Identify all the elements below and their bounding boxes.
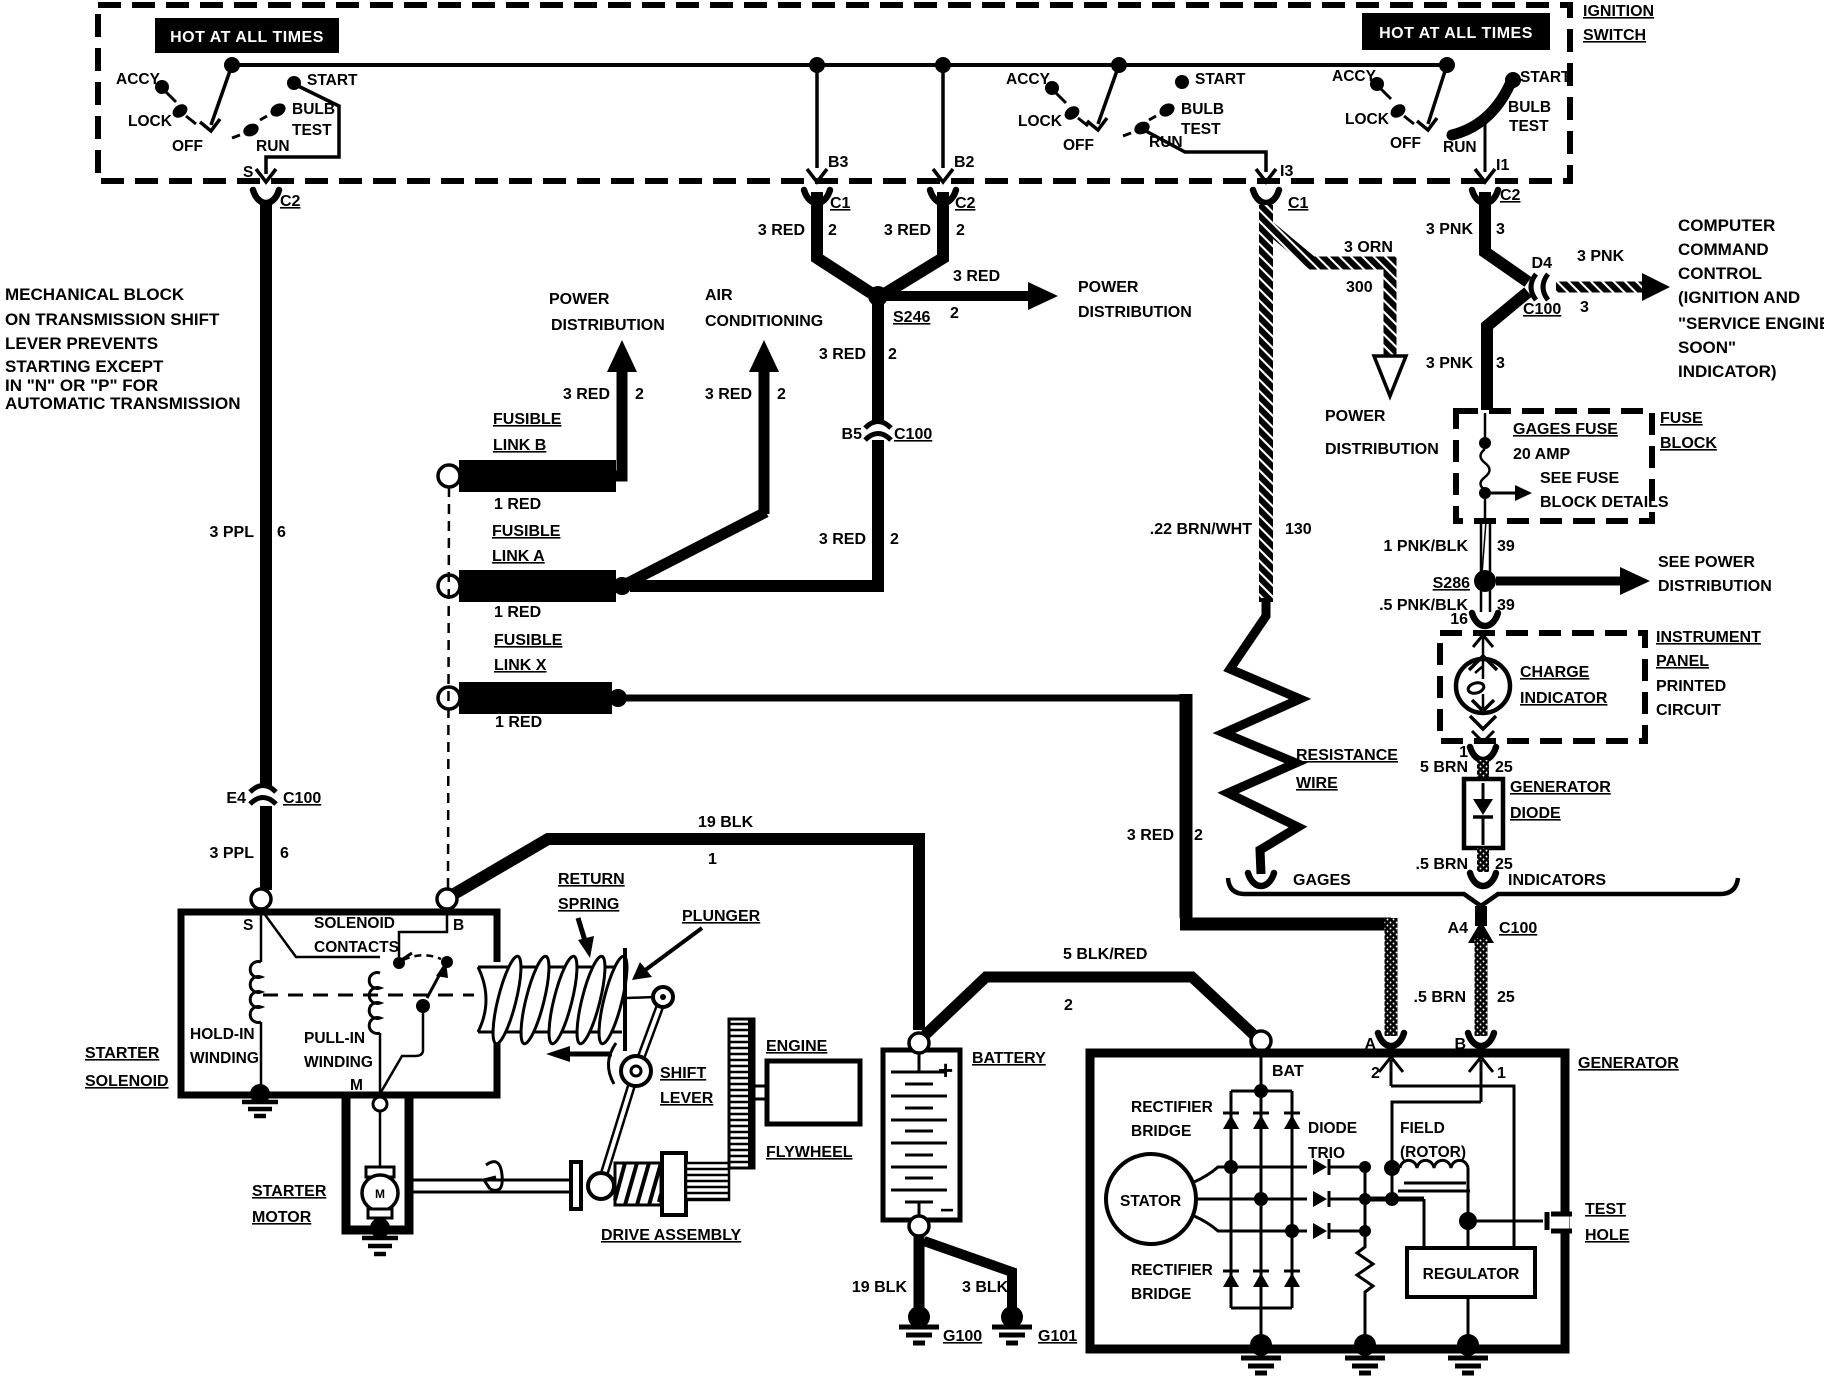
node bus junction 3: [935, 57, 951, 73]
svg-text:SPRING: SPRING: [558, 896, 619, 913]
svg-text:IGNITION: IGNITION: [1583, 3, 1654, 20]
svg-text:5 BRN: 5 BRN: [1420, 759, 1468, 776]
svg-text:OFF: OFF: [1390, 135, 1421, 152]
svg-text:IN "N" OR "P" FOR: IN "N" OR "P" FOR: [5, 376, 158, 395]
diodes bottom row: [1223, 1271, 1300, 1287]
hollow arrow power distribution: [1374, 356, 1406, 396]
svg-text:HOT AT ALL TIMES: HOT AT ALL TIMES: [1379, 25, 1533, 42]
svg-text:BAT: BAT: [1272, 1063, 1304, 1080]
connector E4 C100: [226, 786, 321, 808]
connector A4 C100: [1448, 920, 1538, 943]
arrow A inside box: [1371, 1057, 1403, 1086]
svg-text:WINDING: WINDING: [190, 1050, 259, 1067]
svg-text:−: −: [940, 1197, 954, 1224]
arrow 3 PNK to computer command control: [1556, 248, 1670, 316]
svg-text:G100: G100: [943, 1328, 982, 1345]
fusible link X: [438, 682, 627, 714]
svg-text:ON TRANSMISSION SHIFT: ON TRANSMISSION SHIFT: [5, 310, 220, 329]
label POWER DISTRIBUTION (left): [549, 291, 665, 334]
switch 2 START contact: [1175, 71, 1246, 89]
connector 16: [1450, 611, 1498, 628]
svg-text:POWER: POWER: [1078, 279, 1139, 296]
svg-text:BULB: BULB: [1181, 101, 1224, 118]
connector C2 (switch 1): [253, 190, 301, 210]
svg-text:1: 1: [1497, 1065, 1506, 1082]
svg-text:2: 2: [950, 305, 959, 322]
splice S286: [1433, 570, 1496, 592]
ground starter motor: [362, 1218, 398, 1254]
shift lever eye at plunger: [653, 987, 673, 1007]
wire link X long to generator A: [618, 695, 1183, 702]
svg-text:RETURN: RETURN: [558, 871, 625, 888]
ground hold-in: [242, 1084, 278, 1116]
svg-text:2: 2: [828, 222, 837, 239]
wire 19 BLK from solenoid B to battery: [454, 839, 919, 1030]
switch 2 BULB TEST contact: [1149, 101, 1224, 138]
svg-text:3: 3: [1580, 299, 1589, 316]
svg-text:POWER: POWER: [1325, 408, 1386, 425]
svg-text:GENERATOR: GENERATOR: [1578, 1055, 1679, 1072]
label COMPUTER COMMAND CONTROL: [1678, 216, 1824, 381]
junction dots stator rows: [1224, 1160, 1299, 1238]
terminal BAT generator: [1251, 1031, 1271, 1051]
test hole wire: [1459, 1212, 1547, 1230]
label FUSIBLE LINK A: [492, 523, 561, 565]
svg-text:BULB: BULB: [292, 101, 335, 118]
svg-text:16: 16: [1450, 611, 1468, 628]
wire .5 BRN speckled below diode: [1477, 848, 1489, 872]
wire brace to A4: [1475, 906, 1487, 926]
wire B3 drop: [807, 65, 849, 182]
label RECTIFIER BRIDGE bottom: [1131, 1262, 1213, 1303]
pull-in winding coil: [369, 972, 380, 1033]
drive hatched coupling: [615, 1163, 661, 1205]
svg-text:A4: A4: [1448, 920, 1469, 937]
label 3 RED 2 (C1 drop): [758, 222, 837, 239]
wire 5 BRN speckled: [1477, 760, 1489, 779]
svg-text:3 BLK: 3 BLK: [962, 1279, 1009, 1296]
svg-text:INDICATOR): INDICATOR): [1678, 362, 1777, 381]
svg-text:SWITCH: SWITCH: [1583, 27, 1646, 44]
svg-text:ACCY: ACCY: [1332, 68, 1377, 85]
wire B5 down and left to link A: [630, 440, 878, 586]
label 5 BLK/RED 2: [1063, 946, 1147, 1014]
wire link B to power arrow: [610, 468, 622, 476]
svg-text:GENERATOR: GENERATOR: [1510, 779, 1611, 796]
label 3 RED 2 (S246 down): [819, 346, 897, 363]
wire S to hold-in winding: [260, 909, 263, 962]
svg-text:SHIFT: SHIFT: [660, 1065, 706, 1082]
label CHARGE INDICATOR: [1520, 664, 1608, 707]
svg-text:(IGNITION AND: (IGNITION AND: [1678, 288, 1800, 307]
label DIODE TRIO: [1308, 1120, 1357, 1162]
battery plus minus: [938, 1055, 954, 1224]
battery cells: [891, 1053, 947, 1216]
svg-text:S246: S246: [893, 309, 930, 326]
svg-text:RUN: RUN: [256, 138, 290, 155]
svg-text:START: START: [1520, 69, 1571, 86]
svg-text:G101: G101: [1038, 1328, 1077, 1345]
svg-text:.5 BRN: .5 BRN: [1414, 989, 1466, 1006]
svg-text:RECTIFIER: RECTIFIER: [1131, 1099, 1213, 1116]
svg-text:ACCY: ACCY: [116, 71, 161, 88]
connector B: [1454, 1033, 1494, 1053]
svg-text:CIRCUIT: CIRCUIT: [1656, 702, 1721, 719]
svg-text:PANEL: PANEL: [1656, 653, 1709, 670]
arrow power distribution right of S246: [886, 282, 1058, 310]
drive collar disc: [571, 1162, 581, 1209]
label STARTER MOTOR: [252, 1183, 327, 1226]
hold-in winding coil: [250, 962, 261, 1023]
ignition switch dashed box: [98, 5, 1570, 181]
svg-text:1: 1: [708, 851, 717, 868]
shift lever rod: [601, 998, 663, 1184]
svg-text:AUTOMATIC TRANSMISSION: AUTOMATIC TRANSMISSION: [5, 394, 240, 413]
svg-text:B2: B2: [954, 154, 975, 171]
svg-text:FUSE: FUSE: [1660, 410, 1703, 427]
svg-text:2: 2: [1064, 997, 1073, 1014]
label 3 RED 2 (left arrow): [563, 386, 644, 403]
rectifier bridge frame: [1231, 1084, 1292, 1308]
svg-text:START: START: [307, 72, 358, 89]
svg-text:2: 2: [956, 222, 965, 239]
svg-text:LINK B: LINK B: [493, 437, 546, 454]
svg-text:2: 2: [1371, 1065, 1380, 1082]
wire C2 thick to S246: [886, 192, 943, 293]
arrow B inside box: [1469, 1057, 1506, 1102]
dashed line connecting fusible links to B terminal: [448, 487, 449, 888]
label POWER DISTRIBUTION (S246): [1078, 279, 1192, 321]
svg-text:FLYWHEEL: FLYWHEEL: [766, 1144, 853, 1161]
svg-text:3 RED: 3 RED: [563, 386, 610, 403]
svg-text:SOLENOID: SOLENOID: [314, 915, 395, 932]
wire .22 BRN/WHT hatched from C1: [1259, 205, 1273, 602]
svg-text:GAGES FUSE: GAGES FUSE: [1513, 421, 1618, 438]
svg-text:3 RED: 3 RED: [819, 531, 866, 548]
svg-text:C100: C100: [1523, 301, 1561, 318]
starter solenoid box: [181, 912, 497, 1095]
label IGNITION SWITCH: [1583, 3, 1654, 44]
svg-text:I1: I1: [1496, 157, 1509, 174]
wire 3 RED speckled down to A: [1385, 918, 1398, 1036]
diode trio diodes: [1313, 1159, 1365, 1239]
svg-text:39: 39: [1497, 538, 1515, 555]
note text mechanical block: [5, 285, 240, 413]
svg-text:BATTERY: BATTERY: [972, 1050, 1046, 1067]
wire moving contact to M: [381, 1006, 423, 1092]
svg-text:WIRE: WIRE: [1296, 775, 1338, 792]
svg-text:RUN: RUN: [1443, 139, 1477, 156]
stator circle: [1106, 1154, 1196, 1244]
svg-text:BRIDGE: BRIDGE: [1131, 1286, 1191, 1303]
label GAGES FUSE 20 AMP: [1513, 421, 1618, 463]
svg-text:RESISTANCE: RESISTANCE: [1296, 747, 1398, 764]
svg-text:130: 130: [1285, 521, 1312, 538]
svg-text:DISTRIBUTION: DISTRIBUTION: [1325, 441, 1439, 458]
brace gages/indicators: [1228, 878, 1738, 906]
switch 2 RUN contact: [1123, 119, 1183, 151]
label 3 PPL 6 lower: [210, 845, 289, 862]
svg-text:INDICATOR: INDICATOR: [1520, 690, 1608, 707]
starter motor symbol: [362, 1167, 398, 1218]
flywheel gear: [729, 1019, 754, 1168]
svg-text:STATOR: STATOR: [1120, 1193, 1181, 1210]
label 3 PPL 6 upper: [210, 524, 286, 541]
svg-text:ACCY: ACCY: [1006, 71, 1051, 88]
return spring coils: [487, 954, 632, 1046]
switch 3 BULB TEST labels: [1508, 99, 1551, 135]
svg-text:AIR: AIR: [705, 287, 733, 304]
svg-text:3 RED: 3 RED: [758, 222, 805, 239]
label POWER DISTRIBUTION (orn): [1325, 408, 1439, 458]
svg-text:S286: S286: [1433, 575, 1470, 592]
label PLUNGER with arrow: [632, 908, 761, 980]
svg-text:DIODE: DIODE: [1308, 1120, 1357, 1137]
svg-text:5 BLK/RED: 5 BLK/RED: [1063, 946, 1147, 963]
shift lever pivot: [621, 1056, 651, 1086]
connector C2 (I1): [1472, 187, 1521, 204]
field coil: [1384, 1160, 1470, 1221]
svg-text:DRIVE ASSEMBLY: DRIVE ASSEMBLY: [601, 1227, 742, 1244]
svg-text:GAGES: GAGES: [1293, 872, 1351, 889]
instrument panel dashed box: [1440, 633, 1645, 741]
shaft rotation arrow: [484, 1162, 502, 1191]
svg-text:3 PNK: 3 PNK: [1426, 355, 1474, 372]
field bus wire: [1365, 1192, 1424, 1248]
svg-text:DISTRIBUTION: DISTRIBUTION: [1658, 578, 1772, 595]
svg-text:"SERVICE ENGINE: "SERVICE ENGINE: [1678, 314, 1824, 333]
label 1 PNK/BLK 39: [1384, 538, 1515, 555]
svg-text:FUSIBLE: FUSIBLE: [493, 411, 562, 428]
switch 2 ACCY contact: [1006, 71, 1066, 103]
terminal S: [243, 889, 271, 934]
wire hold-in to ground: [260, 1022, 263, 1085]
label FUSIBLE LINK B: [493, 411, 562, 454]
svg-text:PLUNGER: PLUNGER: [682, 908, 761, 925]
svg-text:6: 6: [280, 845, 289, 862]
svg-text:I3: I3: [1280, 163, 1293, 180]
wire regulator to ground: [1467, 1297, 1470, 1344]
label 3 RED 2 (right vertical): [1127, 827, 1203, 844]
label GENERATOR DIODE: [1510, 779, 1611, 822]
label 3 RED 2 (C2 drop): [884, 222, 965, 239]
fusible link B: [438, 460, 616, 492]
svg-text:C2: C2: [955, 195, 976, 212]
switch 1 LOCK contact: [128, 101, 196, 130]
svg-text:C2: C2: [1500, 187, 1521, 204]
svg-text:LOCK: LOCK: [1018, 113, 1063, 130]
svg-text:300: 300: [1346, 279, 1373, 296]
svg-text:CONTACTS: CONTACTS: [314, 939, 399, 956]
wire from START to S terminal: [266, 85, 339, 174]
terminal B: [437, 889, 464, 934]
svg-text:FIELD: FIELD: [1400, 1120, 1445, 1137]
svg-text:25: 25: [1495, 759, 1513, 776]
switch 3 lever: [1417, 65, 1447, 130]
svg-text:25: 25: [1497, 989, 1515, 1006]
drive pinion block: [662, 1153, 686, 1215]
switch 1 RUN contact: [232, 121, 290, 155]
svg-text:WINDING: WINDING: [304, 1054, 373, 1071]
label SOLENOID CONTACTS: [314, 915, 399, 956]
svg-text:.5 BRN: .5 BRN: [1416, 856, 1468, 873]
generator box: [1090, 1053, 1565, 1349]
wire field to regulator: [1467, 1221, 1470, 1248]
wire B2 drop: [933, 65, 975, 182]
wire C1 thick to S246: [817, 192, 871, 293]
wire S246 down: [872, 303, 884, 424]
svg-text:SOON": SOON": [1678, 338, 1736, 357]
svg-text:RECTIFIER: RECTIFIER: [1131, 1262, 1213, 1279]
node bus junction 2: [809, 57, 825, 73]
splice S246: [868, 286, 930, 326]
svg-text:ENGINE: ENGINE: [766, 1038, 828, 1055]
svg-text:S: S: [243, 917, 253, 934]
svg-text:3 PPL: 3 PPL: [210, 845, 255, 862]
svg-text:OFF: OFF: [172, 138, 203, 155]
svg-text:19 BLK: 19 BLK: [698, 814, 754, 831]
node bus junction 1: [224, 57, 240, 73]
svg-text:INDICATORS: INDICATORS: [1508, 872, 1606, 889]
wire B to field: [1392, 1102, 1481, 1164]
label 5 BRN 25: [1420, 759, 1513, 776]
label 3 PNK 3 (upper): [1426, 221, 1505, 238]
svg-text:DIODE: DIODE: [1510, 805, 1561, 822]
svg-text:PULL-IN: PULL-IN: [304, 1030, 365, 1047]
svg-text:2: 2: [1194, 827, 1203, 844]
svg-text:3 RED: 3 RED: [884, 222, 931, 239]
svg-text:HOLD-IN: HOLD-IN: [190, 1026, 255, 1043]
label 3 PNK 3 (lower): [1426, 355, 1505, 372]
svg-text:POWER: POWER: [549, 291, 610, 308]
svg-text:COMMAND: COMMAND: [1678, 240, 1769, 259]
svg-text:6: 6: [277, 524, 286, 541]
svg-text:3 PPL: 3 PPL: [210, 524, 255, 541]
arrow into C2 connector: [256, 169, 276, 182]
svg-text:3 RED: 3 RED: [953, 268, 1000, 285]
svg-text:BRIDGE: BRIDGE: [1131, 1123, 1191, 1140]
svg-text:MECHANICAL BLOCK: MECHANICAL BLOCK: [5, 285, 185, 304]
engine box: [767, 1061, 860, 1124]
drive splined shaft: [686, 1163, 729, 1200]
connector gages V: [1248, 873, 1274, 886]
label 3 RED 2 (AC arrow): [705, 386, 786, 403]
svg-text:B3: B3: [828, 154, 849, 171]
wire bus inside ignition switch: [232, 63, 1447, 67]
label M terminal circle: [373, 1097, 387, 1111]
connector B5 C100: [842, 422, 933, 444]
switch 1 ACCY contact: [116, 71, 176, 102]
label RECTIFIER BRIDGE top: [1131, 1099, 1213, 1140]
printed circuit arrow up: [1469, 635, 1497, 670]
svg-text:STARTER: STARTER: [252, 1183, 327, 1200]
svg-text:M: M: [350, 1077, 363, 1094]
svg-text:SEE POWER: SEE POWER: [1658, 554, 1755, 571]
diodes top row: [1223, 1113, 1300, 1129]
wire 1 PNK/BLK double line: [1481, 521, 1490, 574]
svg-text:1 RED: 1 RED: [494, 604, 541, 621]
svg-text:MOTOR: MOTOR: [252, 1209, 312, 1226]
dashed contact gap: [403, 955, 441, 960]
HOT AT ALL TIMES label left: [155, 18, 339, 53]
svg-text:3 ORN: 3 ORN: [1344, 239, 1393, 256]
wire M to motor: [379, 1111, 382, 1168]
svg-text:INSTRUMENT: INSTRUMENT: [1656, 629, 1761, 646]
wire bridge bottom to ground: [1260, 1308, 1263, 1344]
ground generator 2: [1345, 1334, 1385, 1373]
svg-text:SEE FUSE: SEE FUSE: [1540, 470, 1619, 487]
svg-text:STARTING EXCEPT: STARTING EXCEPT: [5, 357, 164, 376]
battery terminals: [909, 1033, 929, 1236]
svg-text:3 PNK: 3 PNK: [1577, 248, 1625, 265]
diode trio collector: [1359, 1161, 1371, 1237]
svg-text:LEVER PREVENTS: LEVER PREVENTS: [5, 334, 158, 353]
gages fuse element: [1479, 413, 1491, 521]
svg-text:.22 BRN/WHT: .22 BRN/WHT: [1150, 521, 1252, 538]
contact fixed dot: [393, 957, 405, 969]
svg-text:2: 2: [777, 386, 786, 403]
switch 3 START contact: [1505, 69, 1571, 88]
svg-text:20 AMP: 20 AMP: [1513, 446, 1571, 463]
svg-text:COMPUTER: COMPUTER: [1678, 216, 1775, 235]
svg-text:REGULATOR: REGULATOR: [1423, 1266, 1520, 1283]
connector V to brace: [1470, 873, 1496, 886]
svg-text:START: START: [1195, 71, 1246, 88]
svg-text:LOCK: LOCK: [128, 113, 173, 130]
wire A to regulator right: [1391, 1086, 1514, 1248]
svg-text:BULB: BULB: [1508, 99, 1551, 116]
svg-text:3: 3: [1496, 355, 1505, 372]
wire D4 down to fuse block: [1487, 292, 1528, 410]
svg-text:LOCK: LOCK: [1345, 111, 1390, 128]
fusible link A: [438, 570, 631, 602]
label 19 BLK 1: [698, 814, 754, 868]
plunger end plate: [623, 948, 627, 1051]
label FUSE BLOCK: [1660, 410, 1717, 452]
svg-text:C1: C1: [830, 195, 851, 212]
wire from switch 2 RUN to I3: [1144, 130, 1266, 172]
svg-text:CONTROL: CONTROL: [1678, 264, 1762, 283]
svg-text:HOLE: HOLE: [1585, 1227, 1630, 1244]
wire .5 BRN speckled to B: [1475, 938, 1488, 1036]
contact moving dot with arrow: [400, 953, 453, 1013]
label .5 PNK/BLK 39: [1379, 597, 1515, 614]
switch 2 LOCK contact: [1018, 103, 1088, 130]
arrow see power distribution: [1496, 554, 1772, 595]
label TEST HOLE: [1585, 1201, 1630, 1244]
svg-text:1 RED: 1 RED: [495, 714, 542, 731]
printed circuit arrows down: [1470, 716, 1496, 742]
label I1 and arrow: [1475, 157, 1509, 182]
svg-text:C100: C100: [283, 790, 321, 807]
label .22 BRN/WHT 130: [1150, 521, 1312, 538]
label PULL-IN WINDING: [304, 1030, 373, 1071]
svg-text:+: +: [938, 1055, 953, 1085]
svg-text:19 BLK: 19 BLK: [852, 1279, 908, 1296]
svg-text:HOT AT ALL TIMES: HOT AT ALL TIMES: [170, 29, 324, 46]
svg-text:C100: C100: [1499, 920, 1537, 937]
svg-text:3: 3: [1496, 221, 1505, 238]
svg-text:FUSIBLE: FUSIBLE: [494, 632, 563, 649]
svg-text:S: S: [243, 164, 253, 181]
switch 3 ACCY contact: [1332, 68, 1391, 99]
label RESISTANCE WIRE: [1296, 747, 1398, 792]
connector 1: [1459, 744, 1496, 761]
label 3 RED 2 (lower): [819, 531, 899, 548]
svg-text:CHARGE: CHARGE: [1520, 664, 1590, 681]
wire 3 BLK branch: [924, 1241, 1012, 1310]
wire from switch 3 RUN to I1: [1484, 120, 1487, 172]
